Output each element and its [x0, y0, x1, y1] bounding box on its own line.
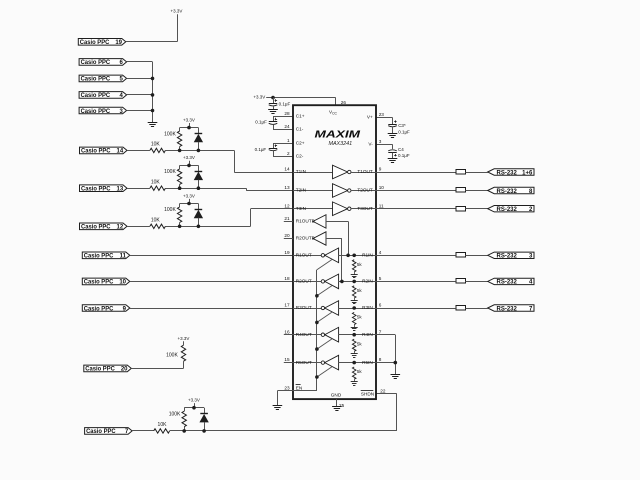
svg-text:15: 15	[284, 357, 290, 362]
svg-text:R1OUT: R1OUT	[296, 253, 312, 258]
svg-text:23: 23	[284, 385, 290, 390]
svg-text:Casio PPC: Casio PPC	[84, 306, 114, 312]
svg-text:C1+: C1+	[296, 114, 305, 119]
svg-text:MAX3241: MAX3241	[328, 141, 352, 147]
svg-text:5: 5	[379, 276, 382, 281]
svg-text:+3.3V: +3.3V	[178, 336, 190, 341]
svg-text:9: 9	[379, 167, 382, 172]
svg-text:11: 11	[120, 254, 127, 260]
svg-text:100K: 100K	[164, 169, 176, 175]
svg-text:3: 3	[379, 139, 382, 144]
svg-text:14: 14	[117, 149, 124, 155]
svg-text:5k: 5k	[357, 262, 363, 267]
svg-text:17: 17	[284, 303, 290, 308]
svg-text:T1OUT: T1OUT	[357, 169, 373, 174]
svg-text:21: 21	[284, 216, 290, 221]
svg-text:V+: V+	[367, 115, 373, 120]
svg-text:100K: 100K	[164, 131, 176, 137]
svg-text:100K: 100K	[166, 352, 178, 358]
svg-text:2: 2	[287, 151, 290, 156]
svg-text:T3OUT: T3OUT	[357, 206, 373, 211]
svg-text:100K: 100K	[169, 411, 181, 417]
svg-text:5k: 5k	[357, 288, 363, 293]
svg-text:Casio PPC: Casio PPC	[86, 429, 116, 435]
svg-text:R4OUT: R4OUT	[296, 332, 312, 337]
svg-text:C2-: C2-	[296, 154, 304, 159]
svg-text:10: 10	[379, 185, 385, 190]
svg-text:EN: EN	[296, 386, 303, 391]
svg-text:C3*: C3*	[398, 123, 406, 128]
svg-text:R2IN: R2IN	[362, 279, 373, 284]
svg-text:Casio PPC: Casio PPC	[84, 280, 114, 286]
svg-text:0.1μF: 0.1μF	[279, 101, 291, 106]
svg-text:11: 11	[379, 203, 384, 208]
svg-text:23: 23	[379, 112, 385, 117]
svg-text:R3OUT: R3OUT	[296, 305, 312, 310]
svg-text:6: 6	[379, 303, 382, 308]
svg-text:10K: 10K	[151, 179, 161, 185]
svg-text:0.1μF: 0.1μF	[398, 153, 410, 158]
svg-text:22: 22	[380, 388, 386, 393]
svg-text:RS-232: RS-232	[497, 170, 518, 176]
svg-text:16: 16	[284, 329, 290, 334]
svg-text:13: 13	[117, 187, 124, 193]
svg-text:Casio PPC: Casio PPC	[81, 149, 111, 155]
svg-text:5k: 5k	[357, 369, 363, 374]
svg-text:Casio PPC: Casio PPC	[81, 93, 111, 99]
svg-text:12: 12	[284, 203, 290, 208]
svg-text:8: 8	[379, 357, 382, 362]
svg-text:MAXIM: MAXIM	[315, 129, 361, 140]
svg-text:R1IN: R1IN	[362, 253, 373, 258]
svg-text:+3.3V: +3.3V	[170, 9, 182, 14]
svg-text:GND: GND	[331, 392, 342, 397]
svg-text:19: 19	[115, 40, 122, 46]
svg-text:Casio PPC: Casio PPC	[81, 77, 111, 83]
svg-text:Casio PPC: Casio PPC	[84, 254, 114, 260]
svg-text:+3.3V: +3.3V	[183, 155, 195, 160]
svg-text:V-: V-	[368, 142, 373, 147]
svg-text:RS-232: RS-232	[497, 207, 518, 213]
svg-text:Casio PPC: Casio PPC	[81, 60, 111, 66]
svg-text:T2IN: T2IN	[296, 188, 306, 193]
svg-text:7: 7	[379, 329, 382, 334]
svg-text:0.1μF: 0.1μF	[398, 130, 410, 135]
svg-text:C2+: C2+	[296, 141, 305, 146]
svg-text:13: 13	[284, 185, 290, 190]
svg-text:0.1μF: 0.1μF	[255, 147, 267, 152]
svg-text:1: 1	[287, 138, 290, 143]
svg-text:4: 4	[379, 250, 382, 255]
svg-text:24: 24	[284, 124, 290, 129]
svg-text:19: 19	[284, 250, 290, 255]
svg-text:+3.3V: +3.3V	[183, 193, 195, 198]
svg-text:R3IN: R3IN	[362, 305, 373, 310]
svg-text:T2OUT: T2OUT	[357, 188, 373, 193]
svg-text:5k: 5k	[357, 341, 363, 346]
svg-text:Casio PPC: Casio PPC	[85, 367, 115, 373]
svg-text:C4: C4	[398, 147, 404, 152]
svg-text:SHDN: SHDN	[361, 392, 374, 397]
svg-text:20: 20	[121, 367, 128, 373]
svg-text:Casio PPC: Casio PPC	[80, 40, 110, 46]
svg-text:Casio PPC: Casio PPC	[81, 225, 111, 231]
svg-text:10K: 10K	[158, 422, 168, 428]
svg-text:25: 25	[339, 403, 345, 408]
svg-text:C1-: C1-	[296, 127, 304, 132]
svg-text:0.1μF: 0.1μF	[255, 119, 267, 124]
svg-text:5k: 5k	[357, 315, 363, 320]
svg-text:RS-232: RS-232	[497, 254, 518, 260]
svg-text:10K: 10K	[151, 218, 161, 224]
svg-text:RS-232: RS-232	[497, 189, 518, 195]
svg-text:Casio PPC: Casio PPC	[81, 109, 111, 115]
svg-text:R1OUTB: R1OUTB	[296, 219, 315, 224]
svg-text:+3.3V: +3.3V	[183, 117, 195, 122]
svg-text:10K: 10K	[151, 142, 161, 148]
svg-text:100K: 100K	[164, 207, 176, 213]
svg-text:14: 14	[284, 167, 290, 172]
svg-text:RS-232: RS-232	[497, 306, 518, 312]
svg-text:T3IN: T3IN	[296, 206, 306, 211]
svg-text:R2OUTB: R2OUTB	[296, 236, 315, 241]
svg-text:18: 18	[284, 276, 290, 281]
svg-text:Casio PPC: Casio PPC	[81, 187, 111, 193]
svg-text:R2OUT: R2OUT	[296, 279, 312, 284]
svg-text:R5IN: R5IN	[362, 360, 373, 365]
svg-text:12: 12	[117, 225, 124, 231]
svg-text:RS-232: RS-232	[497, 280, 518, 286]
svg-text:T1IN: T1IN	[296, 169, 306, 174]
svg-text:20: 20	[284, 233, 290, 238]
svg-text:R5OUT: R5OUT	[296, 360, 312, 365]
svg-text:28: 28	[284, 111, 290, 116]
svg-text:+3.3V: +3.3V	[253, 95, 265, 100]
svg-text:1+6: 1+6	[522, 170, 533, 176]
svg-text:R4IN: R4IN	[362, 332, 373, 337]
svg-text:10: 10	[119, 280, 126, 286]
svg-text:+3.3V: +3.3V	[188, 398, 200, 403]
